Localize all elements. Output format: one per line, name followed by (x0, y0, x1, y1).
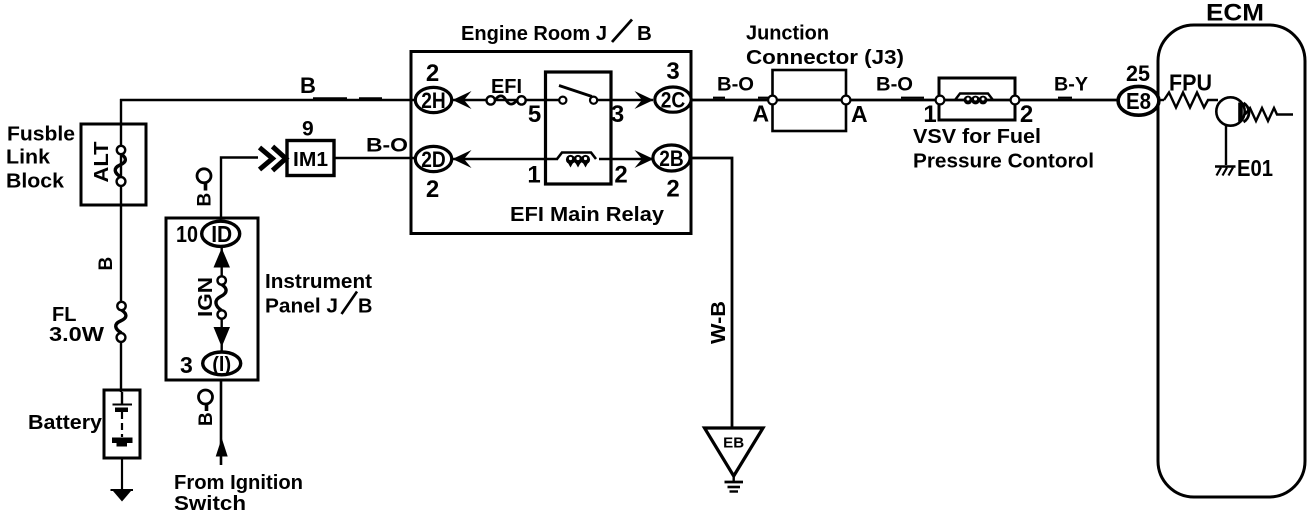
svg-text:B-Y: B-Y (1054, 75, 1088, 96)
svg-text:2: 2 (1020, 101, 1033, 128)
svg-text:Junction: Junction (746, 23, 829, 45)
svg-text:2: 2 (666, 176, 679, 203)
battery box (104, 390, 140, 458)
wire transistor emitter to E01 ground (1225, 124, 1227, 165)
svg-text:Switch: Switch (174, 493, 246, 515)
svg-text:A: A (753, 101, 770, 127)
svg-text:B: B (637, 22, 652, 45)
svg-text:Instrument: Instrument (265, 271, 372, 293)
svg-text:A: A (851, 101, 868, 127)
svg-text:B-O: B-O (366, 136, 408, 157)
svg-text:ID: ID (211, 221, 232, 247)
connector oval 2H (415, 87, 451, 112)
chevron arrows into IM1 (260, 147, 286, 171)
ECM box (1158, 25, 1305, 497)
fuse IGN (216, 247, 226, 352)
svg-text:B: B (96, 257, 117, 271)
svg-text:IM1: IM1 (293, 149, 328, 171)
svg-text:Fusble: Fusble (7, 124, 75, 146)
resistor FPU (1164, 93, 1218, 108)
svg-text:3: 3 (180, 352, 193, 378)
ground triangle EB (705, 428, 764, 492)
svg-text:1: 1 (527, 162, 540, 189)
wire relay pin 2 to 2B (599, 158, 653, 160)
svg-text:B: B (195, 193, 216, 207)
label Junction Connector (J3) (746, 23, 904, 70)
svg-text:B-O: B-O (717, 75, 754, 96)
svg-text:2H: 2H (421, 88, 446, 113)
arrow into 2B (635, 150, 654, 168)
svg-text:10: 10 (176, 221, 198, 247)
wire instrument panel to ignition switch (220, 380, 223, 465)
svg-text:Battery: Battery (28, 412, 103, 434)
svg-text:3.0W: 3.0W (49, 324, 104, 346)
svg-text:3: 3 (611, 101, 624, 128)
wire relay pin 3 to 2C (593, 99, 653, 101)
svg-text:Link: Link (6, 147, 51, 169)
fuse ALT (115, 146, 125, 186)
svg-text:Block: Block (6, 171, 65, 193)
label VSV for Fuel Pressure Contorol (913, 126, 1094, 173)
wire 2H to relay pin 5 (452, 99, 562, 101)
svg-text:B: B (196, 412, 217, 426)
junction connector node A right (842, 96, 851, 105)
fusible link block box ALT (81, 124, 146, 205)
svg-text:9: 9 (302, 118, 314, 141)
relay IM1 box (287, 141, 334, 176)
slash of Panel J/B (342, 292, 358, 315)
label Fusble Link Block (6, 124, 75, 193)
label FL 3.0W (49, 304, 104, 346)
wire noise dashes junction (713, 97, 1072, 99)
wire 2B to EB ground W-B (690, 158, 732, 428)
VSV coil box (939, 78, 1015, 120)
svg-text:From Ignition: From Ignition (174, 472, 303, 494)
wire 2C to E8 B-O B-Y (691, 99, 1120, 102)
label B-O rotated lower (196, 390, 217, 426)
svg-text:EFI: EFI (491, 76, 522, 98)
wire E8 to resistor (1160, 99, 1164, 101)
svg-text:(l): (l) (212, 354, 231, 376)
connector oval 2C (655, 87, 691, 112)
fuse EFI (487, 96, 526, 105)
svg-text:2: 2 (614, 162, 627, 189)
wire ID to IM1 (221, 158, 258, 220)
svg-text:5: 5 (528, 101, 541, 128)
svg-text:2B: 2B (659, 146, 684, 171)
wire vertical battery feed (120, 99, 122, 303)
ground below battery (111, 490, 134, 502)
resistor collector (1245, 108, 1293, 121)
svg-text:1: 1 (923, 101, 936, 128)
svg-text:Engine Room J: Engine Room J (461, 22, 607, 45)
fuse FL 3.0W (116, 302, 126, 342)
EFI main relay box (546, 72, 612, 184)
battery symbol (112, 392, 133, 447)
junction connector J3 box (773, 70, 847, 131)
svg-text:Panel J: Panel J (265, 296, 338, 318)
slash of Engine Room J/B (612, 20, 632, 43)
connector oval I (203, 352, 241, 376)
svg-text:B: B (300, 73, 316, 98)
label Engine Room J/B (461, 22, 652, 45)
junction connector node A left (768, 96, 777, 105)
svg-text:FL: FL (52, 304, 76, 326)
svg-text:Connector (J3): Connector (J3) (746, 47, 904, 69)
arrow up from ignition switch (216, 438, 228, 457)
arrow into 2H (453, 91, 472, 109)
arrow down to I connector (214, 327, 231, 347)
wire noise dashes top left (313, 97, 382, 99)
connector oval ID (202, 221, 240, 247)
svg-text:ALT: ALT (91, 142, 113, 183)
connector oval 2B (653, 145, 690, 171)
relay coil (557, 153, 596, 168)
svg-text:3: 3 (666, 58, 679, 85)
svg-text:2: 2 (426, 176, 439, 203)
svg-text:Pressure Contorol: Pressure Contorol (913, 151, 1094, 173)
svg-text:FPU: FPU (1169, 70, 1212, 96)
wire IM1 to 2D B-O (334, 157, 416, 159)
svg-text:B: B (358, 296, 372, 318)
wire FL fuse to battery (120, 341, 122, 392)
label From Ignition Switch (174, 472, 303, 515)
svg-text:W-B: W-B (708, 301, 730, 344)
wire 2D to relay pin 1 (452, 158, 558, 160)
svg-text:2D: 2D (421, 147, 446, 172)
connector oval E8 (1118, 86, 1159, 115)
svg-text:EFI Main Relay: EFI Main Relay (510, 203, 665, 226)
arrow into 2C (635, 91, 654, 109)
wire battery to ground (121, 457, 123, 490)
label Instrument Panel J/B (265, 271, 372, 318)
svg-text:E8: E8 (1126, 88, 1151, 114)
engine room J/B box (411, 52, 691, 234)
svg-text:VSV for Fuel: VSV for Fuel (913, 126, 1041, 148)
svg-text:EB: EB (723, 436, 744, 452)
VSV node pin 1 (936, 96, 945, 105)
transistor Q (1216, 97, 1249, 125)
svg-text:2C: 2C (661, 87, 686, 112)
svg-text:2: 2 (426, 60, 439, 87)
wire B from fusible link to 2H (120, 99, 416, 101)
ground E01 (1215, 167, 1236, 176)
svg-text:IGN: IGN (195, 277, 217, 317)
relay switch contacts (559, 86, 597, 104)
svg-text:ECM: ECM (1206, 0, 1264, 27)
VSV coil (955, 94, 993, 105)
VSV node pin 2 (1011, 96, 1020, 105)
svg-text:25: 25 (1126, 61, 1150, 86)
connector oval 2D (415, 146, 451, 171)
svg-text:B-O: B-O (876, 75, 913, 96)
arrow up to ID connector (214, 248, 231, 268)
svg-text:E01: E01 (1237, 155, 1273, 181)
arrow into 2D (453, 150, 472, 168)
instrument panel J/B box (166, 218, 258, 380)
connector circle B-O upper (195, 169, 216, 207)
